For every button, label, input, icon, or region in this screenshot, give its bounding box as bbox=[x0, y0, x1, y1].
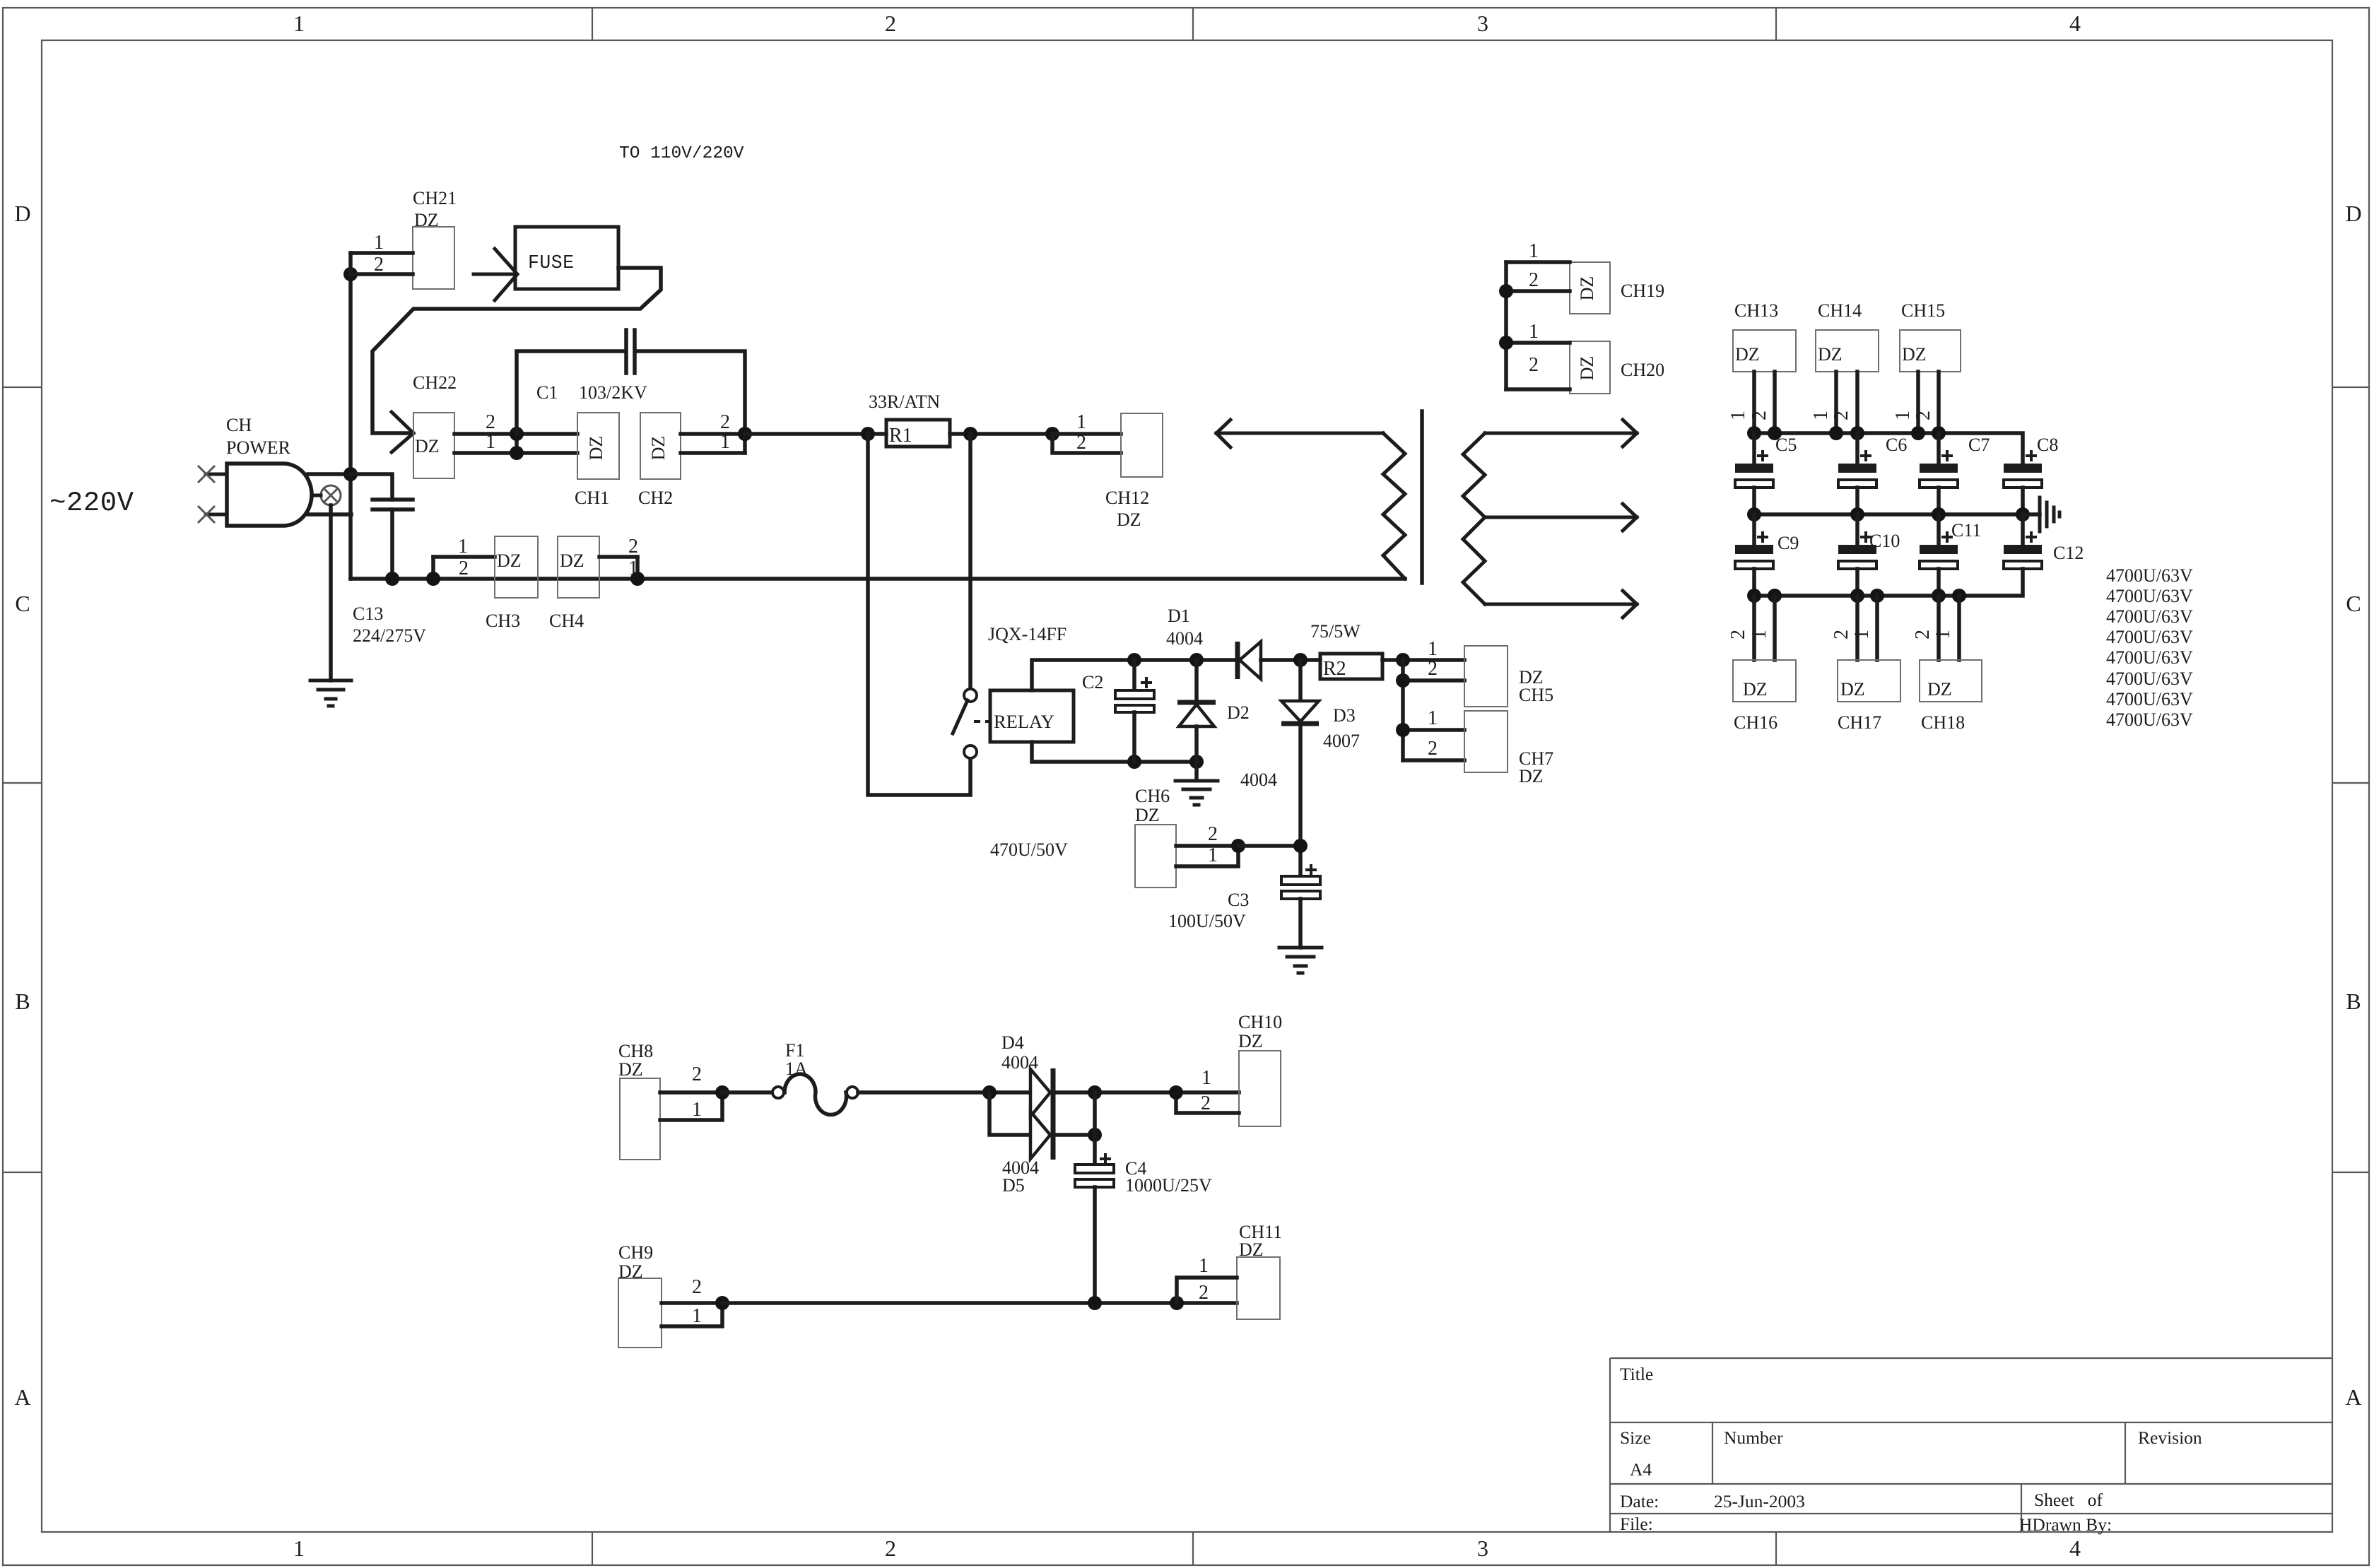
connector CH14 body bbox=[1816, 330, 1879, 372]
node C2 bottom bbox=[1127, 755, 1141, 769]
svg-text:4700U/63V: 4700U/63V bbox=[2106, 627, 2193, 647]
svg-text:3: 3 bbox=[1477, 11, 1488, 36]
svg-text:C10: C10 bbox=[1869, 531, 1900, 551]
svg-text:DZ: DZ bbox=[648, 436, 669, 461]
svg-text:CH17: CH17 bbox=[1838, 712, 1881, 733]
node CH6 bbox=[1231, 839, 1245, 853]
svg-text:DZ: DZ bbox=[1577, 276, 1597, 301]
pin 2 CH7 bbox=[1403, 738, 1464, 760]
svg-text:File:: File: bbox=[1620, 1514, 1653, 1534]
node D3 top bbox=[1293, 653, 1308, 667]
node live junction upper bbox=[343, 267, 358, 281]
svg-text:D5: D5 bbox=[1002, 1175, 1025, 1196]
capacitor C13 bbox=[372, 500, 413, 579]
svg-text:4004: 4004 bbox=[1166, 628, 1203, 649]
wire CH19/CH20 bus bbox=[1504, 262, 1508, 389]
svg-text:F1: F1 bbox=[785, 1040, 804, 1061]
diode D5 bbox=[1030, 1111, 1095, 1160]
node CH10 bbox=[1169, 1085, 1183, 1100]
wire fuse feed arrow bbox=[474, 249, 517, 300]
pin 1 CH11 bbox=[1177, 1255, 1237, 1303]
connector CH5 body bbox=[1464, 646, 1508, 707]
capacitor C1 bbox=[626, 330, 635, 373]
svg-text:DZ: DZ bbox=[1902, 344, 1927, 365]
connector CH9 body bbox=[618, 1278, 662, 1348]
svg-text:DZ: DZ bbox=[415, 436, 440, 456]
connector CH3 body bbox=[495, 536, 538, 598]
node CH12 branch bbox=[1045, 427, 1059, 441]
transformer secondary lead bottom bbox=[1485, 591, 1637, 618]
svg-text:DZ: DZ bbox=[1735, 344, 1760, 365]
svg-text:2: 2 bbox=[1727, 630, 1749, 639]
svg-text:2: 2 bbox=[1428, 658, 1438, 680]
capacitor C7 bbox=[1920, 433, 1958, 514]
pin 1 CH22 bbox=[454, 431, 577, 453]
svg-text:4004: 4004 bbox=[1240, 770, 1277, 790]
relay switch contacts bbox=[953, 689, 977, 758]
svg-text:JQX-14FF: JQX-14FF bbox=[988, 624, 1066, 644]
svg-text:3: 3 bbox=[1477, 1535, 1488, 1561]
svg-text:A: A bbox=[14, 1384, 30, 1410]
capacitor C3 label bbox=[1168, 890, 1249, 931]
svg-text:Size: Size bbox=[1620, 1427, 1651, 1448]
svg-text:2: 2 bbox=[885, 1535, 896, 1561]
svg-text:4700U/63V: 4700U/63V bbox=[2106, 606, 2193, 627]
zone divider bottom 2/3 bbox=[1192, 1532, 1194, 1565]
svg-text:DZ: DZ bbox=[1927, 679, 1952, 700]
pin 2 CH21 bbox=[351, 254, 413, 276]
connector CH9 designator bbox=[618, 1242, 653, 1282]
zone divider right D/C bbox=[2332, 387, 2369, 388]
svg-text:D: D bbox=[2345, 201, 2361, 226]
wire diode outputs link bbox=[1093, 1092, 1097, 1165]
svg-text:TO 110V/220V: TO 110V/220V bbox=[619, 144, 744, 163]
node R1 output bbox=[963, 427, 977, 441]
fuse F1 bbox=[772, 1074, 858, 1115]
connector CH10 designator bbox=[1238, 1012, 1282, 1051]
capacitor C11 bbox=[1920, 514, 1958, 596]
wire relay bypass left bbox=[868, 434, 970, 795]
wire earth drop bbox=[329, 505, 333, 680]
capacitor C8 bbox=[2004, 450, 2042, 514]
svg-text:DZ: DZ bbox=[1577, 356, 1597, 381]
transformer primary winding bbox=[1383, 433, 1405, 579]
connector CH1 body bbox=[577, 413, 619, 479]
connector CH POWER designator bbox=[226, 415, 291, 458]
svg-text:POWER: POWER bbox=[226, 437, 291, 458]
svg-text:CH22: CH22 bbox=[413, 372, 457, 393]
zone divider left C/B bbox=[3, 782, 42, 784]
node C4 bottom bbox=[1088, 1296, 1102, 1310]
wire relay coil top bbox=[1032, 660, 1235, 690]
connector CH10 body bbox=[1239, 1051, 1281, 1126]
svg-text:DZ: DZ bbox=[1238, 1031, 1263, 1051]
svg-text:R2: R2 bbox=[1323, 658, 1346, 680]
wire fuse to D4 bbox=[858, 1090, 1030, 1095]
title block outline bbox=[1610, 1358, 2332, 1532]
svg-text:Sheet of: Sheet of bbox=[2034, 1490, 2103, 1510]
svg-text:2: 2 bbox=[1428, 738, 1438, 760]
node CH5 pin1 bbox=[1396, 653, 1410, 667]
svg-text:2: 2 bbox=[1831, 411, 1852, 420]
pin 1 CH2 bbox=[681, 431, 745, 453]
arrow into CH22 bbox=[392, 412, 413, 452]
diode D5 label bbox=[1002, 1157, 1039, 1196]
fuse holder FUSE box bbox=[515, 227, 618, 289]
pin 1 CH3 bbox=[433, 536, 495, 558]
svg-text:2: 2 bbox=[459, 558, 469, 579]
svg-text:1: 1 bbox=[1851, 630, 1873, 639]
svg-text:D2: D2 bbox=[1227, 702, 1250, 723]
connector CH16 body bbox=[1733, 660, 1796, 702]
svg-text:CH19: CH19 bbox=[1621, 281, 1664, 301]
svg-text:DZ: DZ bbox=[560, 550, 584, 571]
node CH11 bbox=[1170, 1296, 1184, 1310]
capacitor C3 bbox=[1281, 864, 1320, 948]
node CH2 output bbox=[738, 427, 752, 441]
svg-text:1: 1 bbox=[1199, 1255, 1209, 1277]
svg-text:FUSE: FUSE bbox=[528, 252, 575, 273]
svg-text:75/5W: 75/5W bbox=[1310, 621, 1361, 642]
diode D1 label bbox=[1166, 606, 1203, 649]
connector CH22 designator bbox=[413, 372, 457, 393]
svg-text:Date:: Date: bbox=[1620, 1491, 1659, 1511]
capacitor C5 bbox=[1735, 433, 1773, 514]
svg-text:1: 1 bbox=[720, 431, 730, 453]
wire bottom capacitor bus bbox=[1754, 569, 2023, 596]
connector CH6 designator bbox=[1135, 786, 1170, 825]
zone divider right B/A bbox=[2332, 1172, 2369, 1173]
wire R1 output bbox=[950, 432, 1052, 436]
transformer core bbox=[1420, 411, 1424, 583]
capacitor values list 4700U/63V bbox=[2106, 565, 2193, 730]
connector CH POWER body bbox=[198, 464, 312, 526]
capacitor C4 label bbox=[1125, 1158, 1212, 1196]
svg-text:1: 1 bbox=[1428, 638, 1438, 660]
svg-text:1: 1 bbox=[1810, 411, 1832, 420]
connector CH13 body bbox=[1733, 330, 1796, 372]
ground at C3 bbox=[1279, 948, 1322, 973]
svg-text:Revision: Revision bbox=[2138, 1427, 2202, 1448]
svg-text:C12: C12 bbox=[2053, 543, 2084, 563]
zone divider bottom 3/4 bbox=[1775, 1532, 1777, 1565]
svg-text:DZ: DZ bbox=[497, 550, 522, 571]
zone divider top 2/3 bbox=[1192, 8, 1194, 40]
svg-text:CH14: CH14 bbox=[1818, 300, 1862, 321]
pin 1 CH16 bbox=[1749, 596, 1775, 660]
svg-text:C3: C3 bbox=[1228, 890, 1249, 910]
connector CH18 body bbox=[1920, 660, 1982, 702]
pin 1 CH12 bbox=[1052, 411, 1121, 434]
transformer secondary lead mid bbox=[1485, 504, 1637, 531]
pin 2 CH4 bbox=[599, 536, 638, 558]
node C13 bottom bbox=[385, 572, 399, 586]
svg-text:C8: C8 bbox=[2037, 435, 2058, 455]
svg-text:4: 4 bbox=[2069, 11, 2081, 36]
capacitor C1 label bbox=[536, 382, 647, 403]
ground symbol (mains earth) bbox=[310, 680, 351, 706]
svg-text:C6: C6 bbox=[1886, 435, 1907, 455]
svg-text:2: 2 bbox=[1912, 630, 1934, 639]
diode D4 label bbox=[1001, 1032, 1038, 1073]
title block divider Size/Number bbox=[1712, 1422, 1713, 1484]
svg-text:RELAY: RELAY bbox=[994, 711, 1054, 732]
svg-text:1: 1 bbox=[293, 1535, 305, 1561]
svg-text:1: 1 bbox=[1201, 1067, 1211, 1089]
nodes bottom bus bbox=[1747, 589, 1966, 603]
resistor R1 33R/ATN bbox=[869, 391, 950, 447]
svg-text:D1: D1 bbox=[1168, 606, 1190, 626]
wire top capacitor bus bbox=[1754, 433, 2023, 464]
svg-text:DZ: DZ bbox=[586, 436, 606, 461]
transformer primary lead arrow bbox=[1216, 420, 1383, 447]
nodes top bus bbox=[1747, 426, 1946, 440]
node link lower bbox=[510, 446, 524, 460]
diode D1 bbox=[1238, 642, 1320, 679]
pin 1 CH9 bbox=[662, 1303, 722, 1327]
transformer secondary winding bbox=[1463, 433, 1485, 604]
svg-text:1: 1 bbox=[692, 1305, 702, 1327]
node CH9 bbox=[715, 1296, 729, 1310]
svg-text:470U/50V: 470U/50V bbox=[990, 839, 1068, 860]
wire vertical live riser bbox=[348, 274, 353, 579]
pin 2 CH14 bbox=[1831, 372, 1857, 433]
svg-text:2: 2 bbox=[1199, 1282, 1209, 1304]
pin 1 CH7 bbox=[1403, 707, 1464, 730]
wire CH8 to fuse bbox=[722, 1090, 773, 1095]
wire CH6 to D3 column bbox=[1238, 844, 1300, 848]
svg-text:B: B bbox=[15, 989, 30, 1014]
wire connector top pin to node bbox=[308, 472, 351, 476]
pin 2 CH15 bbox=[1912, 372, 1939, 433]
svg-text:CH1: CH1 bbox=[575, 488, 609, 508]
pin 1 CH19 bbox=[1506, 240, 1570, 262]
zone divider left B/A bbox=[3, 1172, 42, 1173]
node D2 top bbox=[1189, 653, 1204, 667]
svg-text:4700U/63V: 4700U/63V bbox=[2106, 586, 2193, 606]
connector CH8 body bbox=[620, 1078, 660, 1160]
node CH5 pin2 bbox=[1396, 673, 1410, 688]
svg-text:DZ: DZ bbox=[618, 1059, 643, 1080]
wire CH2 output link bbox=[743, 434, 747, 453]
wire CH4 pin link bbox=[635, 557, 640, 579]
wire C1 left riser bbox=[517, 351, 625, 434]
svg-text:25-Jun-2003: 25-Jun-2003 bbox=[1714, 1491, 1805, 1511]
svg-text:2: 2 bbox=[1076, 432, 1086, 454]
svg-text:2: 2 bbox=[1529, 354, 1539, 376]
svg-text:103/2KV: 103/2KV bbox=[579, 382, 647, 403]
svg-text:CH2: CH2 bbox=[638, 488, 673, 508]
svg-text:4007: 4007 bbox=[1323, 731, 1360, 751]
svg-text:4700U/63V: 4700U/63V bbox=[2106, 647, 2193, 668]
connector CH15 body bbox=[1900, 330, 1961, 372]
pin 1 CH20 bbox=[1506, 321, 1570, 343]
pin 2 CH8 bbox=[660, 1063, 722, 1092]
diode D3 bbox=[1281, 660, 1319, 876]
wire C1 right riser bbox=[635, 351, 745, 434]
svg-text:1: 1 bbox=[1892, 411, 1914, 420]
pin 1 CH13 bbox=[1727, 372, 1754, 433]
connector CH2 body bbox=[640, 413, 681, 479]
svg-text:C9: C9 bbox=[1777, 533, 1799, 553]
diode D3 label bbox=[1323, 705, 1360, 751]
svg-text:DZ: DZ bbox=[1840, 679, 1865, 700]
node CH3 bbox=[426, 572, 440, 586]
svg-text:2: 2 bbox=[1208, 823, 1218, 845]
capacitor C4 bbox=[1075, 1153, 1114, 1303]
pin 1 CH15 bbox=[1892, 372, 1918, 433]
pin 2 CH22 bbox=[454, 411, 577, 434]
pin 2 CH20 bbox=[1506, 354, 1570, 389]
svg-text:2: 2 bbox=[1529, 269, 1539, 291]
svg-text:CH10: CH10 bbox=[1238, 1012, 1282, 1032]
node C3 top bbox=[1293, 839, 1308, 853]
ground at D2 anode bbox=[1175, 762, 1218, 805]
pin 1 CH6 bbox=[1176, 844, 1238, 866]
connector CH7 body bbox=[1464, 711, 1508, 772]
zone divider right C/B bbox=[2332, 782, 2369, 784]
svg-text:Title: Title bbox=[1620, 1364, 1653, 1384]
pin 2 CH17 bbox=[1831, 596, 1857, 660]
svg-text:CH20: CH20 bbox=[1621, 360, 1664, 380]
svg-text:4700U/63V: 4700U/63V bbox=[2106, 689, 2193, 709]
svg-text:224/275V: 224/275V bbox=[353, 625, 426, 646]
resistor R2 75/5W bbox=[1310, 621, 1382, 680]
svg-text:DZ: DZ bbox=[1519, 766, 1544, 786]
earth pin marker circle-x bbox=[312, 485, 341, 505]
svg-text:CH13: CH13 bbox=[1734, 300, 1778, 321]
svg-text:~220V: ~220V bbox=[49, 488, 134, 519]
node CH4 bbox=[630, 572, 645, 586]
wire R2 output bbox=[1382, 658, 1464, 662]
svg-text:CH5: CH5 bbox=[1519, 685, 1553, 705]
node CH7 pin1 bbox=[1396, 723, 1410, 737]
svg-text:2: 2 bbox=[692, 1276, 702, 1298]
node D4 anode bbox=[982, 1085, 997, 1100]
svg-text:4: 4 bbox=[2069, 1535, 2081, 1561]
svg-text:1: 1 bbox=[1529, 321, 1539, 343]
svg-text:CH12: CH12 bbox=[1105, 488, 1149, 508]
connector CH11 body bbox=[1237, 1257, 1280, 1319]
svg-text:A: A bbox=[2345, 1384, 2361, 1410]
wire to R1 bbox=[745, 432, 886, 436]
svg-text:CH9: CH9 bbox=[618, 1242, 653, 1263]
relay coil RELAY box bbox=[990, 690, 1074, 742]
svg-text:B: B bbox=[2346, 989, 2361, 1014]
svg-text:CH: CH bbox=[226, 415, 252, 435]
connector CH12 designator bbox=[1105, 488, 1149, 530]
svg-text:100U/50V: 100U/50V bbox=[1168, 911, 1246, 931]
pin 2 CH5 bbox=[1403, 658, 1464, 680]
svg-text:DZ: DZ bbox=[1743, 679, 1768, 700]
capacitor C9 bbox=[1735, 514, 1773, 596]
node D2 bottom bbox=[1189, 755, 1204, 769]
svg-text:C11: C11 bbox=[1951, 520, 1981, 541]
node CH19 pin2 bbox=[1499, 284, 1513, 298]
svg-text:2: 2 bbox=[720, 411, 730, 433]
pin 2 CH16 bbox=[1727, 596, 1754, 660]
wire relay switch feed bbox=[968, 434, 972, 689]
connector CH5 designator bbox=[1519, 667, 1553, 705]
svg-text:CH6: CH6 bbox=[1135, 786, 1170, 806]
capacitor C10 bbox=[1838, 514, 1876, 596]
pin 1 CH14 bbox=[1810, 372, 1836, 433]
svg-text:CH3: CH3 bbox=[486, 611, 520, 631]
svg-text:4700U/63V: 4700U/63V bbox=[2106, 709, 2193, 730]
connector CH21 body bbox=[413, 227, 454, 289]
connector CH4 body bbox=[558, 536, 599, 598]
capacitor C6 bbox=[1838, 433, 1876, 514]
svg-text:1: 1 bbox=[458, 536, 468, 558]
connector CH11 designator bbox=[1239, 1222, 1282, 1260]
pin 1 CH17 bbox=[1851, 596, 1877, 660]
node live junction lower bbox=[343, 467, 358, 481]
svg-text:1: 1 bbox=[1932, 630, 1954, 639]
node D5 cathode bbox=[1088, 1128, 1102, 1142]
pin 1 CH21 bbox=[351, 232, 413, 254]
wire mid capacitor bus bbox=[1754, 512, 2023, 517]
svg-text:1000U/25V: 1000U/25V bbox=[1125, 1175, 1212, 1196]
fuse F1 designator bbox=[785, 1040, 808, 1079]
svg-text:C13: C13 bbox=[353, 603, 383, 624]
svg-text:R1: R1 bbox=[889, 425, 912, 447]
connector CH12 body bbox=[1121, 413, 1163, 477]
svg-text:CH18: CH18 bbox=[1921, 712, 1965, 733]
pin 2 CH9 bbox=[662, 1276, 722, 1303]
svg-text:C: C bbox=[15, 591, 30, 616]
svg-text:1: 1 bbox=[1076, 411, 1086, 433]
svg-text:2: 2 bbox=[692, 1063, 702, 1085]
svg-text:C: C bbox=[2346, 591, 2361, 616]
svg-text:2: 2 bbox=[885, 11, 896, 36]
svg-text:A4: A4 bbox=[1630, 1459, 1652, 1480]
wire relay coil bottom bbox=[1032, 742, 1197, 762]
svg-text:DZ: DZ bbox=[1135, 805, 1160, 825]
title block divider Number/Revision bbox=[2125, 1422, 2126, 1484]
ground at mid bus bbox=[2023, 497, 2059, 531]
node CH8 bbox=[715, 1085, 729, 1100]
svg-text:1: 1 bbox=[1208, 844, 1218, 866]
diode D2 bbox=[1177, 660, 1216, 762]
svg-text:C7: C7 bbox=[1968, 435, 1990, 455]
zone divider top 1/2 bbox=[592, 8, 593, 40]
node D4 cathode bbox=[1088, 1085, 1102, 1100]
pin 1 CH18 bbox=[1932, 596, 1959, 660]
svg-text:CH4: CH4 bbox=[549, 611, 584, 631]
svg-text:2: 2 bbox=[1749, 411, 1770, 420]
pin 2 CH12 bbox=[1052, 432, 1121, 454]
connector CH19 body bbox=[1570, 262, 1610, 314]
wire D5 branch bbox=[989, 1092, 1030, 1135]
svg-text:CH15: CH15 bbox=[1901, 300, 1945, 321]
svg-text:1: 1 bbox=[1749, 630, 1770, 639]
pin 2 CH19 bbox=[1506, 269, 1570, 291]
pin 2 CH10 bbox=[1176, 1092, 1239, 1114]
svg-text:1: 1 bbox=[692, 1099, 702, 1121]
diode D4 bbox=[1030, 1068, 1239, 1117]
pin 2 CH2 bbox=[681, 411, 745, 434]
connector CH21 designator bbox=[413, 188, 457, 230]
connector CH22 body bbox=[413, 413, 454, 478]
zone divider top 3/4 bbox=[1775, 8, 1777, 40]
relay actuation dashed link bbox=[974, 720, 992, 723]
svg-text:Number: Number bbox=[1724, 1427, 1783, 1448]
nodes mid bus bbox=[1747, 507, 2030, 521]
svg-text:4700U/63V: 4700U/63V bbox=[2106, 668, 2193, 689]
svg-text:1: 1 bbox=[1727, 411, 1749, 420]
wire connector bottom pin to vertical bbox=[308, 512, 351, 517]
svg-text:C1: C1 bbox=[536, 382, 558, 403]
